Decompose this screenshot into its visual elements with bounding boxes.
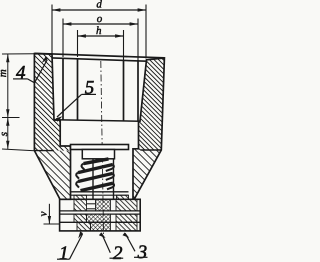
- holder left wall section: [34, 54, 70, 200]
- svg-text:3: 3: [137, 242, 148, 262]
- flange hatch block row3 left: [77, 222, 91, 231]
- cap plate: [71, 145, 129, 150]
- extension s bottom: [2, 149, 35, 151]
- spring coil bar 3: [81, 183, 114, 190]
- spring coil hook top3: [76, 182, 79, 188]
- centerline: [101, 61, 104, 238]
- spring coil hook 1: [106, 165, 114, 172]
- svg-text:v: v: [37, 211, 49, 216]
- spring seat plate: [71, 191, 129, 193]
- holder right wall section: [133, 58, 164, 199]
- flange outline: [60, 199, 141, 231]
- dimension v extension: [44, 223, 60, 225]
- dimension d line: [52, 9, 146, 11]
- seat ear left: [74, 195, 87, 199]
- dimension v line: [48, 204, 50, 224]
- flange hatch row2 right: [116, 214, 137, 222]
- svg-text:o: o: [97, 13, 103, 25]
- dimension v arrow: [48, 216, 51, 224]
- spring coil bar 0: [84, 159, 109, 164]
- stem right edge: [113, 159, 115, 200]
- svg-text:h: h: [96, 25, 102, 37]
- spring coil hook 3: [107, 183, 114, 189]
- top face line: [34, 53, 164, 58]
- dimension m arrows: [6, 54, 9, 118]
- spring coil bar 2: [78, 173, 113, 181]
- svg-text:5: 5: [85, 77, 95, 98]
- flange split lines: [60, 210, 141, 212]
- svg-text:m: m: [0, 69, 9, 77]
- wall bottom edge left: [34, 150, 53, 152]
- spring coil hook top2: [76, 173, 79, 179]
- die insert outer wall left (o): [62, 58, 64, 120]
- wall bottom edge right: [140, 149, 161, 151]
- dimension m line: [7, 54, 9, 118]
- dimension d arrows: [52, 8, 146, 11]
- flange hatch block row2 left: [74, 214, 87, 222]
- svg-text:d: d: [96, 0, 102, 11]
- retainer disk: [82, 150, 114, 159]
- shared extension m/s: [2, 117, 20, 119]
- spring coil hook top: [82, 164, 85, 170]
- dimension o arrows: [63, 22, 138, 25]
- cavity floor line: [54, 120, 140, 121]
- rubber crosshatch row2: [87, 214, 111, 222]
- stem left edge: [92, 159, 94, 200]
- svg-text:4: 4: [16, 62, 26, 83]
- dimension h line: [78, 35, 124, 37]
- crosshatch block row3: [91, 222, 111, 231]
- die insert bore wall right (h): [123, 60, 125, 121]
- pin area lines row1: [87, 204, 96, 209]
- svg-text:2: 2: [113, 243, 123, 262]
- d-step bottom line: [52, 58, 147, 61]
- flange hatch row1 right: [116, 199, 137, 211]
- die insert outer wall right (o): [137, 60, 139, 122]
- crosshatch block row1: [96, 199, 111, 211]
- dimension s line: [7, 118, 9, 150]
- dimension h arrows: [78, 34, 124, 37]
- svg-text:s: s: [0, 132, 10, 136]
- seat ear right: [117, 195, 129, 199]
- dimension m extension top: [2, 53, 35, 55]
- extension lines for d o h: [52, 5, 146, 61]
- spring coil bar 1: [78, 165, 113, 173]
- flange hatch row3 right: [116, 222, 137, 231]
- die insert bore wall left (h): [77, 58, 79, 120]
- flange hatch block row1 left: [74, 199, 87, 211]
- spring coil hook 2: [106, 173, 114, 180]
- dimension o line: [63, 23, 138, 25]
- dimension s arrows: [6, 118, 9, 150]
